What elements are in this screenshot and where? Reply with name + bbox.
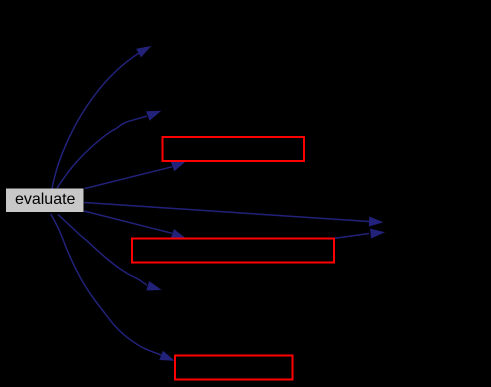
svg-text:evaluate: evaluate [15,191,76,208]
red box 2 (truncated node) [132,239,334,263]
wire: edge evaluate -> node 2 [57,116,147,188]
arrowhead 1 [136,46,151,57]
wire: edge evaluate -> node top [52,53,140,189]
wire: edge evaluate -> red box 1 [85,167,173,189]
wire: edge evaluate -> node below red box 2 [58,215,147,286]
arrowhead 5 [171,229,186,238]
arrowhead 8 [159,351,174,361]
wire: edge evaluate -> far right node [84,203,369,222]
node evaluate (current function) [6,189,84,213]
arrowhead 7 [146,281,161,291]
arrowhead 3 [171,161,186,171]
wire: edge evaluate -> red box 3 [51,214,162,355]
arrowhead 6 [370,229,385,239]
arrowhead 2 [146,111,161,121]
wire: edge red box 2 -> far right node [335,234,369,239]
arrowhead 4 [369,217,384,227]
wire: edge evaluate -> red box 2 [84,211,172,233]
red box 1 (truncated node) [163,137,305,161]
red box 3 (truncated node) [175,356,293,380]
